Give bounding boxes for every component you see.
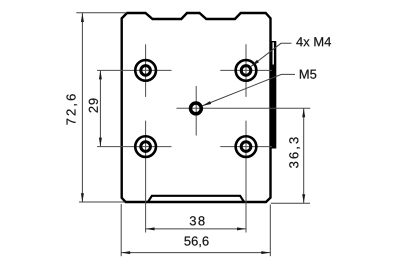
hole BR (M4)	[236, 136, 257, 157]
leader 4x M4	[251, 43, 292, 66]
plate outline	[122, 13, 271, 202]
hole TL (M4)	[135, 60, 156, 81]
leader M5	[202, 74, 295, 106]
centerline TR hole	[220, 44, 272, 97]
centerline center hole	[177, 86, 311, 136]
hole center (M5)	[191, 103, 202, 114]
hole BL (M4)	[135, 136, 156, 157]
centerline BR hole	[220, 121, 272, 233]
dimension 38	[146, 227, 246, 230]
dimension 72,6	[76, 13, 127, 203]
hole TR (M4)	[236, 60, 257, 81]
right side strip	[272, 41, 277, 149]
dimension 29	[99, 70, 102, 146]
centerline TL hole	[97, 44, 172, 97]
dimension 56,6	[121, 204, 270, 256]
bottom recess line	[148, 196, 244, 202]
dimension 36,3	[271, 108, 310, 203]
centerline BL hole	[97, 121, 172, 233]
